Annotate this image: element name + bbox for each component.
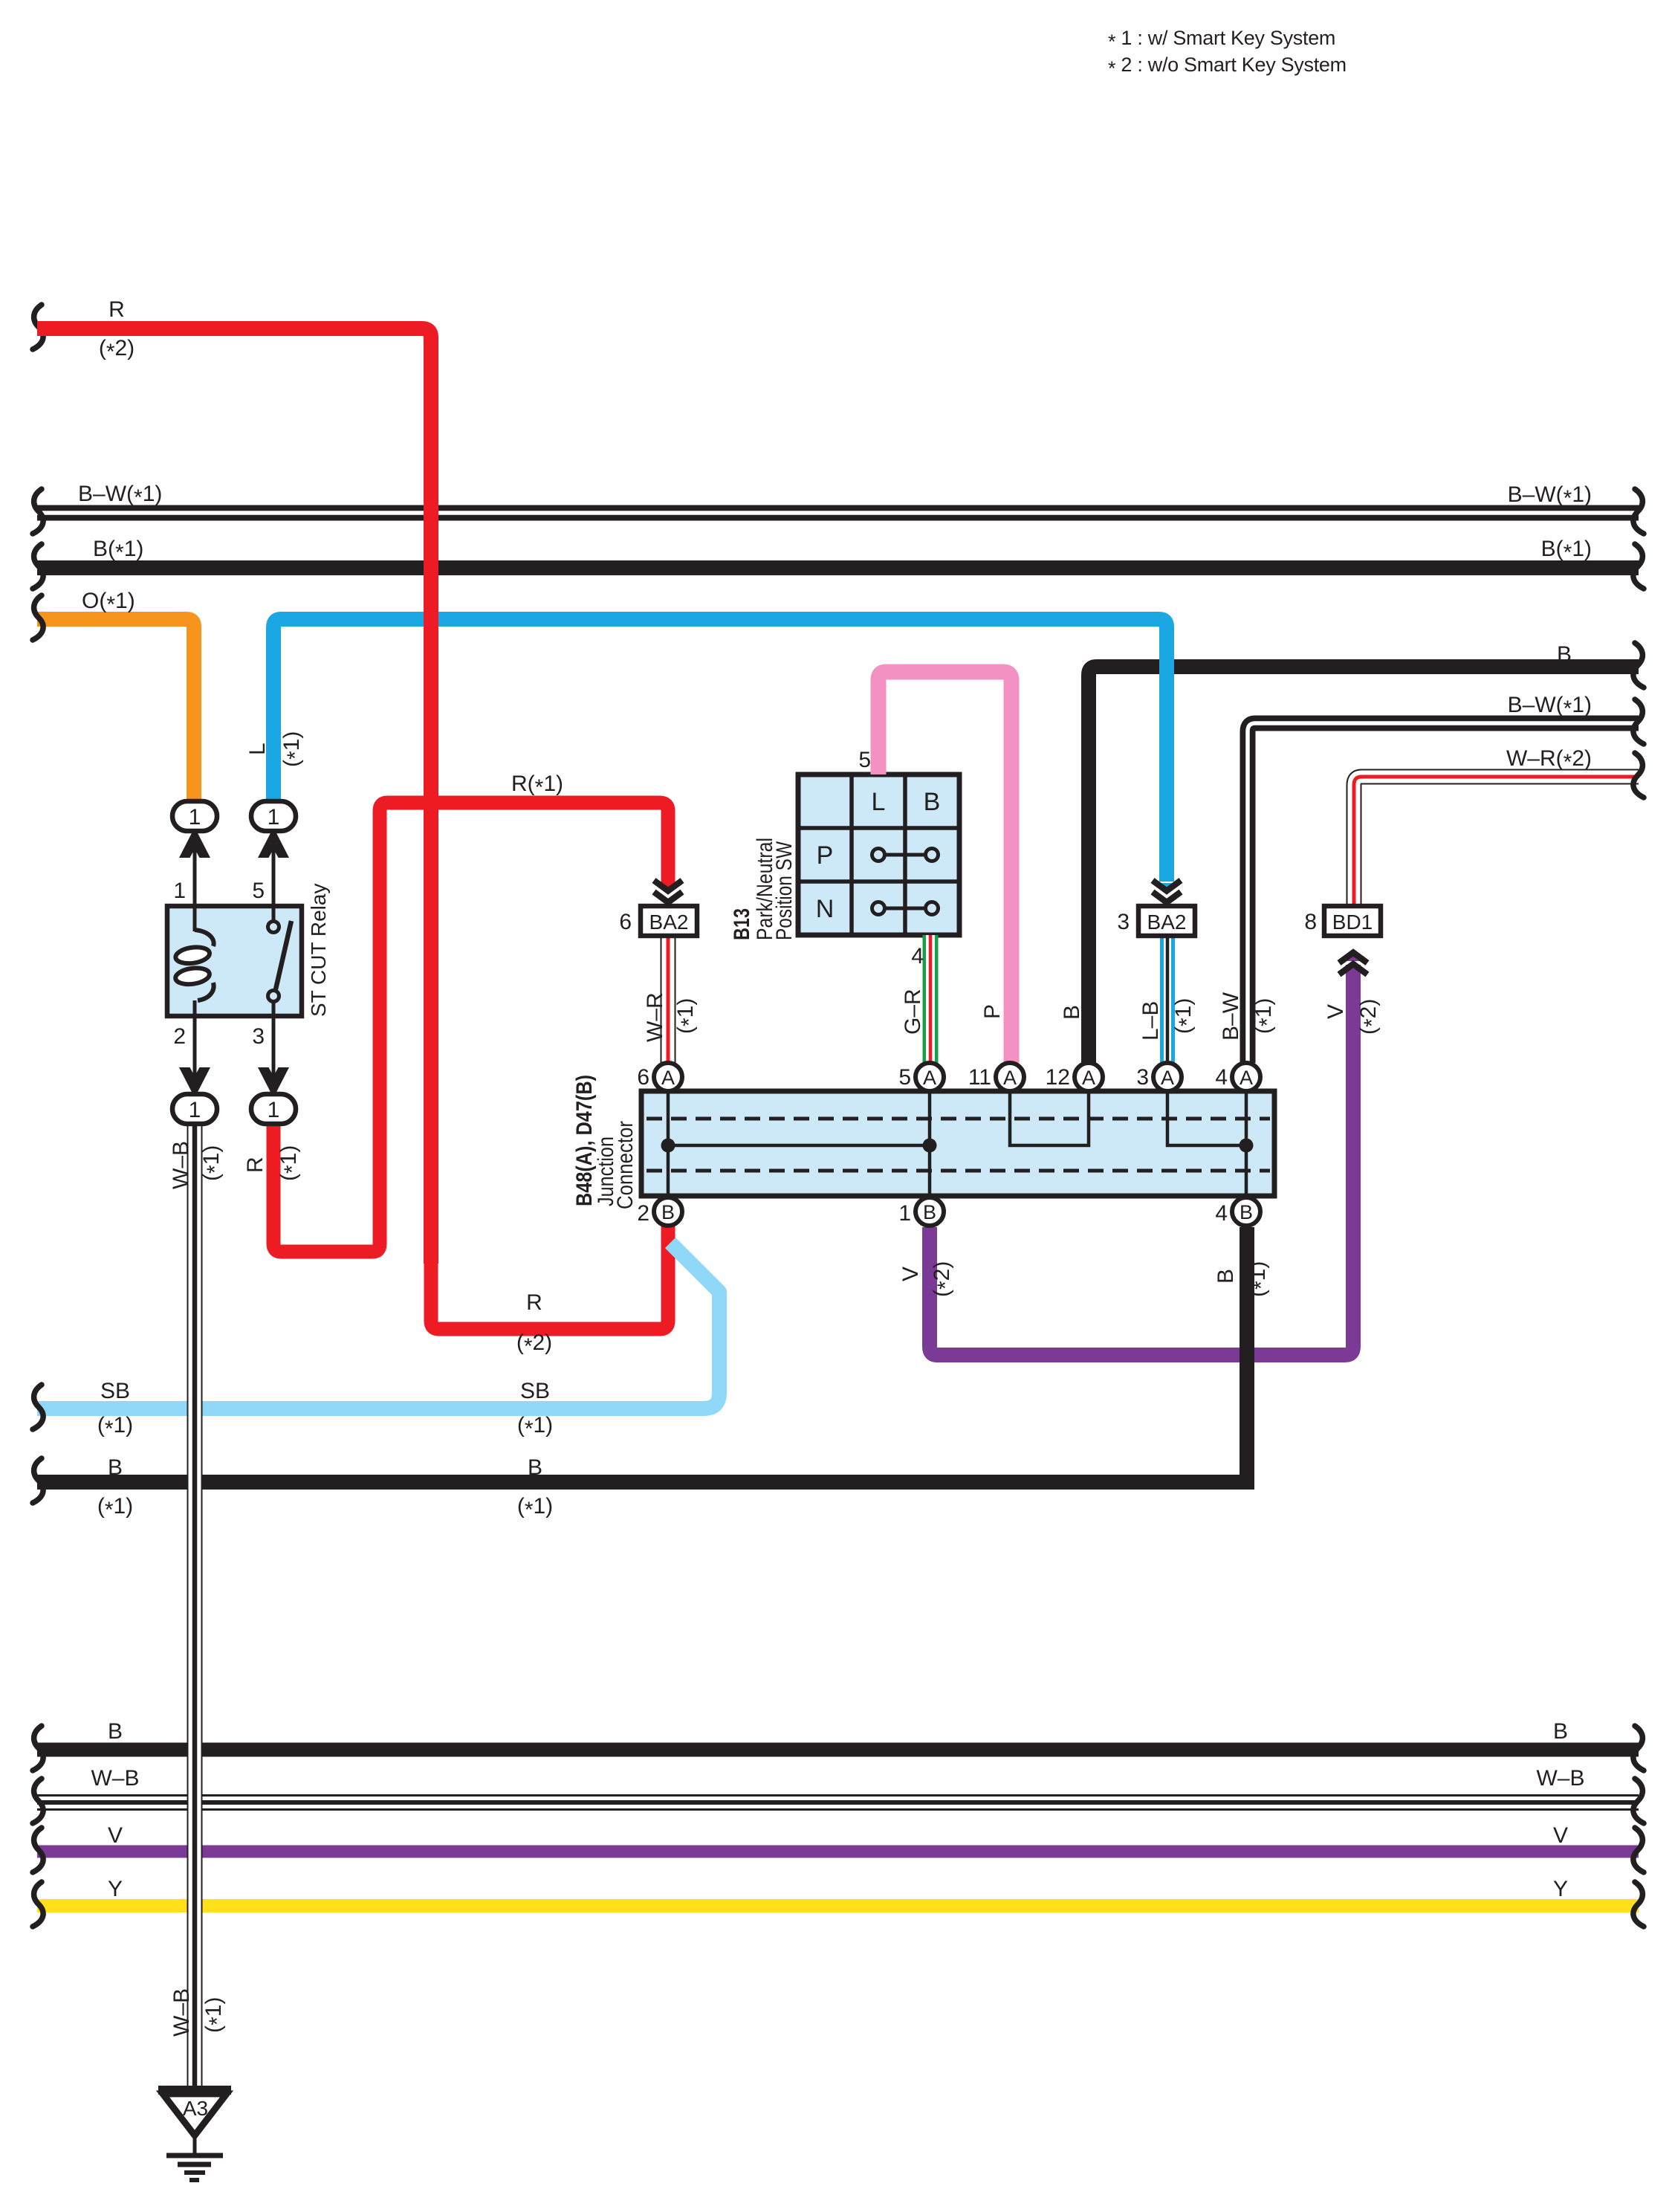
break symbol left of wire V bottom [33,1828,43,1872]
svg-text:B: B [1553,1719,1568,1744]
svg-text:B: B [1214,1269,1238,1284]
junction pin 1B circle [916,1197,944,1226]
label (*1) rotated W-R [673,998,701,1034]
ST CUT Relay box body [167,906,302,1016]
wire W-R (*1) vertical from BA2 to junction pin6A [661,934,676,1064]
junction internal wire pin5A to pin1B [928,1091,932,1196]
svg-text:BD1: BD1 [1332,911,1373,934]
junction pin number 1 [898,1201,911,1226]
switch pin number 4 [911,944,924,968]
svg-text:Y: Y [1553,1877,1568,1901]
svg-text:1: 1 [268,1098,280,1122]
break symbol left of wire Y bottom [33,1882,43,1927]
label W-R rotated [643,992,667,1042]
label Park/Neutral rotated [753,838,777,940]
wire L (*1) pointed tip at BA2 pin3 [1159,883,1174,893]
label P rotated [980,1004,1005,1019]
svg-text:ST CUT Relay: ST CUT Relay [307,884,330,1017]
svg-text:V: V [1323,1004,1348,1019]
junction internal link 3A-4A [1167,1091,1246,1145]
wire V (*2) purple horizontal from pin1B to BD1 [930,965,1353,1355]
svg-text:B: B [923,1201,936,1223]
svg-text:A: A [1161,1067,1174,1089]
relay pin number 2 [173,1024,186,1049]
label B right upper [1557,642,1572,667]
label Y bottom right [1553,1877,1568,1901]
wire B horizontal bottom [37,1743,1639,1757]
wire V horizontal bottom [37,1846,1639,1858]
relay pin number 1 [173,879,186,903]
svg-text:B(*1): B(*1) [93,537,143,565]
wire B-W (*1) horizontal right with corner down to pin4A [1248,723,1639,1063]
svg-text:Connector: Connector [613,1121,638,1209]
svg-text:B: B [1240,1201,1253,1223]
junction pin number 6 [637,1065,649,1090]
wire L (*1) horizontal long blue [273,619,1167,882]
label (*1) rotated below relay R [276,1145,305,1181]
svg-text:5: 5 [898,1065,911,1090]
double chevron arrow into BA2 pin6 [654,881,682,903]
junction pin number 3 [1136,1065,1149,1090]
relay coil [175,930,214,1000]
label SB middle [520,1379,550,1403]
svg-text:W–B: W–B [91,1766,139,1791]
junction pin number 4 bottom [1215,1201,1228,1226]
svg-text:Position SW: Position SW [772,841,797,940]
svg-text:6: 6 [619,910,632,934]
label B-W(*1) right top [1508,482,1592,511]
svg-text:(*2): (*2) [1356,999,1384,1035]
relay pin number 3 [252,1024,265,1049]
svg-text:* 2 : w/o Smart Key System: * 2 : w/o Smart Key System [1108,54,1347,80]
svg-text:(*1): (*1) [97,1413,133,1441]
label O(*1) left [82,589,135,617]
label L rotated on blue wire [245,743,270,755]
svg-text:5: 5 [858,748,871,772]
connector oval 1 below relay pin2 [172,1094,217,1124]
junction pin 4B circle [1232,1197,1260,1226]
junction internal bus link 6A-5A [668,1144,930,1148]
svg-text:3: 3 [1117,910,1130,934]
label (*1) rotated on blue wire [279,731,308,767]
svg-text:W–R(*2): W–R(*2) [1506,746,1592,774]
junction pin 4A circle [1232,1063,1260,1091]
label B-W rotated [1219,992,1243,1041]
svg-text:(*1): (*1) [199,1145,227,1181]
arrow down into oval below relay pin3 [258,1067,289,1098]
wire B (*1) horizontal full width [37,560,1639,575]
break symbol left of wire B (*1) [33,544,43,589]
junction node dot at 4A column [1240,1139,1254,1153]
label (*1) below B middle mid [517,1494,553,1522]
BA2 connector box pin3 [1138,906,1195,936]
svg-text:(*1): (*1) [1245,1261,1274,1297]
ground symbol A3 [158,2090,231,2180]
svg-text:(*1): (*1) [673,998,701,1034]
note *2 w/o Smart Key System [1108,54,1347,80]
label B13 rotated bold [730,908,754,940]
wire B (*1) horizontal middle from pin4B [37,1475,1254,1490]
svg-text:(*1): (*1) [517,1413,553,1441]
svg-text:6: 6 [637,1065,649,1090]
svg-text:B–W: B–W [1219,992,1243,1041]
double chevron arrow up into BD1 pin8 [1339,953,1367,975]
svg-text:(*1): (*1) [201,1997,230,2033]
switch cell letter L [872,788,886,816]
wire SB (*1) horizontal with diagonal to pin2B [37,1243,719,1409]
junction pin 2B circle [654,1197,682,1226]
break symbol right of wire Y bottom [1633,1882,1644,1927]
svg-text:(*1): (*1) [279,731,308,767]
label Position SW rotated [772,841,797,940]
junction connector B48(A) D47(B) box body [641,1091,1274,1196]
break symbol left of wire B-W (*1) [33,489,43,534]
svg-text:A: A [923,1067,936,1089]
svg-text:V: V [1553,1823,1568,1848]
label 3 of BA2 pin3 [1117,910,1130,934]
svg-text:W–B: W–B [169,1141,193,1189]
svg-text:L: L [872,788,886,816]
svg-text:R: R [526,1290,542,1315]
svg-text:R(*1): R(*1) [511,772,563,800]
svg-text:(*2): (*2) [99,336,135,364]
svg-text:B: B [108,1719,123,1744]
junction node dot at 6A column [661,1139,675,1153]
svg-text:R: R [108,297,125,322]
junction pin number 2 [637,1201,649,1226]
connector oval 1 above relay pin5 [251,801,296,831]
label Connector rotated [613,1121,638,1209]
label B middle mid [528,1455,542,1480]
svg-text:3: 3 [252,1024,265,1049]
svg-text:W–B: W–B [169,1988,194,2037]
label W-B bottom left [91,1766,139,1791]
label (*2) rotated below pin1B [930,1261,958,1297]
relay switch contact top [268,922,279,933]
svg-text:B: B [528,1455,542,1480]
svg-text:W–B: W–B [1536,1766,1584,1791]
label R rotated below relay [243,1157,268,1173]
break symbol right of wire B bottom [1633,1726,1644,1770]
relay pin number 5 [252,879,265,903]
label W-B bottom right [1536,1766,1584,1791]
svg-text:P: P [980,1004,1005,1019]
svg-text:A3: A3 [183,2097,208,2120]
break symbol right of wire B-W (*1) [1633,489,1644,534]
break symbol left of wire B (*1) middle [33,1458,43,1503]
label (*1) below SB left [97,1413,133,1441]
svg-text:G–R: G–R [901,989,925,1035]
arrow down into oval below relay pin2 [179,1067,210,1098]
label B48(A) D47(B) rotated bold [572,1075,597,1206]
break symbol right of wire V bottom [1633,1828,1644,1872]
label V rotated below pin1B [898,1267,923,1281]
switch cell letter P [817,841,834,870]
label W-R(*2) right [1506,746,1592,774]
switch cell letter B [924,788,941,816]
svg-text:1: 1 [173,879,186,903]
label B-W(*1) right mid [1508,693,1592,721]
switch pin number 5 [858,748,871,772]
junction connector internal dashed bus lines [647,1119,1270,1171]
note *1 w/ Smart Key System [1108,27,1335,53]
break symbol left of wire W-B bottom [33,1779,43,1823]
label G-R rotated [901,989,925,1035]
relay pin 5 lead wire [272,831,276,923]
relay switch contact bottom [268,991,279,1002]
junction pin number 5 [898,1065,911,1090]
svg-text:BA2: BA2 [649,911,689,934]
svg-text:L: L [245,743,270,755]
svg-text:4: 4 [1215,1065,1228,1090]
wire O (*1) horizontal with corner down [37,619,194,801]
junction pin 3A circle [1153,1063,1182,1091]
svg-text:1: 1 [189,1098,201,1122]
label SB left [100,1379,130,1403]
svg-text:(*1): (*1) [1251,998,1280,1034]
junction pin 12A circle [1075,1063,1103,1091]
junction pin 11A circle [996,1063,1024,1091]
label R on wire R (*2) [108,297,125,322]
wire R (*2) from top line down [37,329,431,1264]
arrow up into oval above relay pin1 [179,827,210,858]
junction internal wire pin6A to pin2B [667,1091,670,1196]
svg-text:BA2: BA2 [1147,911,1187,934]
switch cell letter N [816,895,835,923]
label ST CUT Relay rotated [307,884,330,1017]
double chevron arrow into BA2 pin3 [1153,881,1181,903]
junction internal U link 11A-12A [1010,1091,1089,1145]
label B-W(*1) left [78,482,162,510]
svg-text:* 1 : w/ Smart Key System: * 1 : w/ Smart Key System [1108,27,1335,53]
label (*1) below SB middle [517,1413,553,1441]
label B rotated on pin12 wire [1060,1005,1084,1020]
label (*1) rotated upper W-B [199,1145,227,1181]
label B(*1) right top [1541,537,1592,565]
label W-B rotated upper [169,1141,193,1189]
junction pin number 11 [968,1065,991,1090]
svg-text:(*1): (*1) [97,1494,133,1522]
wire W-B (*1) vertical from relay pin2 connector to ground [187,1122,203,2090]
label V bottom left [108,1823,123,1848]
label (*1) below B left mid [97,1494,133,1522]
label (*1) rotated below pin4B [1245,1261,1274,1297]
break symbol right of wire B-W (*1) right [1633,699,1644,744]
BA2 connector box pin6 [641,906,697,936]
label (*1) rotated lower W-B [201,1997,230,2033]
svg-text:B: B [661,1201,675,1223]
svg-text:(*2): (*2) [930,1261,958,1297]
svg-text:A: A [1240,1067,1253,1089]
break symbol left of wire O (*1) [33,595,43,640]
svg-text:8: 8 [1304,910,1317,934]
label B left mid [108,1455,123,1480]
arrow up into oval above relay pin5 [258,827,289,858]
svg-text:A: A [1082,1067,1095,1089]
svg-text:O(*1): O(*1) [82,589,135,617]
break symbol left of wire R (*2) [33,305,43,349]
label 8 of BD1 pin8 [1304,910,1317,934]
break symbol right of wire W-B bottom [1633,1779,1644,1823]
svg-text:5: 5 [252,879,265,903]
svg-text:1: 1 [898,1201,911,1226]
svg-text:V: V [898,1267,923,1281]
wire R (*1) pointed tip at BA2 pin6 [661,883,675,893]
break symbol right of wire B (*1) [1633,544,1644,589]
park/neutral switch contact P row [872,849,939,861]
label B rotated below pin4B [1214,1269,1238,1284]
svg-text:B: B [108,1455,123,1480]
svg-text:B(*1): B(*1) [1541,537,1592,565]
connector oval 1 below relay pin3 [251,1094,296,1124]
svg-text:(*1): (*1) [1171,998,1199,1034]
svg-text:Y: Y [108,1877,123,1901]
svg-text:SB: SB [520,1379,550,1403]
svg-text:2: 2 [173,1024,186,1049]
wire R (*2) bottom horizontal to pin2B [431,1226,668,1329]
break symbol right of wire W-R (*2) [1633,753,1644,798]
relay pin 3 lead wire [272,995,276,1096]
label (*1) rotated B-W [1251,998,1280,1034]
svg-text:P: P [817,841,834,870]
svg-text:B–W(*1): B–W(*1) [1508,693,1592,721]
label B(*1) left [93,537,143,565]
svg-text:W–R: W–R [643,992,667,1042]
connector oval 1 above relay pin1 [172,801,217,831]
svg-text:B: B [924,788,941,816]
wire G-R vertical from switch pin4 to junction pin5A [923,935,939,1064]
label R above wire R (*2) bottom [526,1290,542,1315]
junction internal wire pin4A to pin4B [1245,1091,1248,1196]
label B bottom right [1553,1719,1568,1744]
break symbol left of wire B bottom [33,1726,43,1770]
label (*1) rotated L-B [1171,998,1199,1034]
wire B-W (*1) horizontal full width [37,505,1639,521]
label (*2) on wire R (*2) [99,336,135,364]
label V bottom right [1553,1823,1568,1848]
svg-text:(*1): (*1) [276,1145,305,1181]
svg-text:SB: SB [100,1379,130,1403]
wire V (*2) pointed tip at BD1 pin8 [1346,951,1361,961]
label W-B rotated lower [169,1988,194,2037]
label (*2) below wire R (*2) bottom [516,1330,552,1359]
svg-text:(*1): (*1) [517,1494,553,1522]
svg-text:L–B: L–B [1138,1001,1163,1041]
svg-text:4: 4 [1215,1201,1228,1226]
label B bottom left [108,1719,123,1744]
wire B horizontal top right [1089,667,1639,1063]
junction node dot at 5A column [923,1139,937,1153]
label R(*1) middle [511,772,563,800]
relay pin 1 lead wire [193,831,197,931]
svg-text:R: R [243,1157,268,1173]
junction pin number 12 [1046,1065,1070,1090]
BD1 connector box pin8 [1324,906,1381,936]
svg-text:B: B [1557,642,1572,667]
break symbol right of wire B top right [1633,643,1644,688]
label L-B rotated [1138,1001,1163,1041]
svg-text:1: 1 [189,805,201,829]
svg-text:B–W(*1): B–W(*1) [78,482,162,510]
junction pin number 4 top [1215,1065,1228,1090]
label Y bottom left [108,1877,123,1901]
svg-text:(*2): (*2) [516,1330,552,1359]
svg-text:N: N [816,895,835,923]
wire B (*1) vertical from junction pin4B down to B line [1240,1227,1254,1481]
svg-text:12: 12 [1046,1065,1070,1090]
label 6 of BA2 pin6 [619,910,632,934]
svg-text:2: 2 [637,1201,649,1226]
svg-text:4: 4 [911,944,924,968]
wire Y horizontal bottom [37,1899,1639,1912]
wire W-R (*2) horizontal right with corner down to BD1 [1354,777,1639,906]
svg-text:1: 1 [268,805,280,829]
svg-text:11: 11 [968,1065,991,1090]
svg-text:B13: B13 [730,908,754,940]
wire P pink from switch pin5 over to junction pin11A [878,672,1011,1063]
junction pin 6A circle [654,1063,682,1091]
wire R (*1) from relay pin3 connector around to BA2 pin6 [273,803,668,1252]
label (*2) rotated below BD1 [1356,999,1384,1035]
relay switch blade [276,921,291,989]
wire L-B vertical from BA2 to junction pin3A [1160,936,1175,1064]
relay pin 2 lead wire [193,1000,197,1096]
wire W-B horizontal bottom [37,1794,1639,1811]
label V rotated below BD1 [1323,1004,1348,1019]
Park/Neutral Position SW box B13 body [798,774,959,935]
break symbol left of wire SB (*1) [33,1385,43,1429]
svg-text:A: A [661,1067,675,1089]
park/neutral switch contact N row [872,902,939,915]
svg-text:3: 3 [1136,1065,1149,1090]
svg-text:B: B [1060,1005,1084,1020]
junction pin 5A circle [916,1063,944,1091]
svg-text:A: A [1003,1067,1017,1089]
svg-text:B–W(*1): B–W(*1) [1508,482,1592,511]
svg-text:V: V [108,1823,123,1848]
label Junction rotated [594,1136,618,1206]
